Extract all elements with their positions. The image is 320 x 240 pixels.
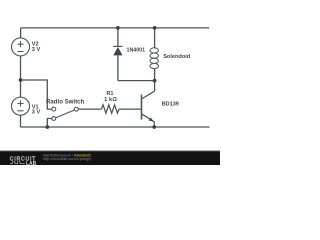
voltage source V1	[12, 97, 30, 115]
svg-text:LAB: LAB	[26, 161, 37, 165]
node emitter bottom rail junction dot	[152, 125, 156, 129]
node mid junction dot	[19, 78, 23, 82]
diode D1 1N4001	[113, 46, 122, 55]
svg-text:3 V: 3 V	[32, 47, 41, 53]
wire switch common to R1	[78, 108, 101, 110]
wire mid-node branch to switch throw A	[21, 80, 52, 109]
wire bottom rail	[21, 126, 210, 128]
node diode top rail junction dot	[116, 26, 120, 30]
wire diode top stub	[117, 28, 119, 47]
wire V2 bottom to V1 top	[20, 56, 22, 97]
wire solenoid bottom to collector junction	[154, 69, 156, 81]
wire junction down to collector	[154, 81, 156, 92]
svg-text:Solendoid: Solendoid	[163, 54, 191, 60]
switch SW1 Radio Switch	[52, 107, 78, 120]
wire top rail	[21, 27, 210, 29]
emitter arrow	[149, 117, 154, 121]
wire R1 to base	[119, 108, 142, 110]
node switch-B bottom rail junction dot	[45, 125, 49, 129]
wire flyback bottom horizontal	[118, 80, 155, 82]
wire diode bottom to junction	[117, 55, 119, 80]
wire left vertical V2 top stub	[20, 28, 22, 38]
svg-text:BD139: BD139	[162, 101, 179, 107]
footer black bar	[0, 150, 220, 165]
wire V1 bottom to bottom rail	[20, 115, 22, 127]
transistor Q1 BD139	[142, 91, 155, 127]
node flyback/collector junction dot	[153, 79, 157, 83]
inductor L1 solenoid coil	[150, 48, 159, 69]
svg-text:http://circuitlab.com/c/pkngry: http://circuitlab.com/c/pkngry	[43, 157, 91, 161]
resistor R1	[101, 105, 119, 113]
svg-text:1N4001: 1N4001	[127, 48, 146, 54]
wire solenoid top stub	[154, 28, 156, 48]
CircuitLab logo waveform	[10, 162, 25, 164]
svg-text:Radio Switch: Radio Switch	[46, 98, 85, 105]
svg-text:1 kΩ: 1 kΩ	[104, 97, 117, 103]
svg-text:3 V: 3 V	[32, 110, 41, 116]
voltage source V2	[12, 38, 30, 56]
node solenoid top rail junction dot	[153, 26, 157, 30]
wire bottom rail branch to switch throw B	[47, 119, 52, 128]
